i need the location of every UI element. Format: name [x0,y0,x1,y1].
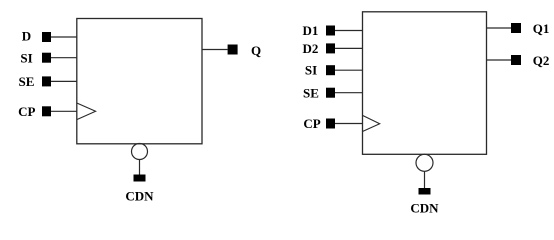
pin label D1 [303,23,319,38]
wire CDN to U1 [139,160,141,175]
svg-text:D2: D2 [303,41,319,56]
pin label D2 [303,41,319,56]
svg-text:D1: D1 [303,23,319,38]
pin terminal Q2 [511,55,521,65]
wire CDN to U2 [424,171,426,188]
pin label Q [251,43,261,58]
flip-flop body U2 (right block) [363,12,487,155]
clock triangle on CP input of U1 [77,103,96,120]
pin terminal Q1 [511,23,521,33]
pin terminal CDN (right) [419,188,431,195]
pin terminal SI (right) [326,65,335,75]
wire SE to U2 [335,92,363,94]
pin label D [22,28,31,43]
svg-text:SE: SE [303,86,319,101]
svg-text:SI: SI [305,63,317,78]
svg-text:Q1: Q1 [533,21,550,36]
svg-text:CP: CP [18,104,35,119]
pin label CDN (right) [410,201,439,216]
wire Q from U1 [202,49,228,51]
svg-text:Q2: Q2 [533,53,550,68]
pin terminal CP (right) [326,119,335,129]
pin label SE (right) [303,86,319,101]
inversion bubble on CDN of U2 [416,154,433,171]
pin label CDN (left) [125,189,154,204]
wire SI to U1 [51,57,77,59]
pin label Q2 [533,53,550,68]
pin label SI (right) [305,63,317,78]
wire D2 to U2 [335,47,363,49]
pin terminal SE [42,76,51,86]
pin terminal CDN (left) [134,175,146,182]
svg-text:SI: SI [20,50,32,65]
inversion bubble on CDN of U1 [132,144,148,160]
pin terminal SE (right) [326,88,335,98]
pin terminal D2 [326,43,335,53]
pin terminal D [42,32,51,42]
svg-text:CP: CP [303,116,320,131]
wire CP to U2 [335,123,363,125]
wire CP to U1 [51,110,77,112]
svg-text:SE: SE [19,74,35,89]
pin label CP (right) [303,116,320,131]
svg-text:CDN: CDN [125,189,154,204]
pin label SE [19,74,35,89]
wire Q1 from U2 [487,27,512,29]
wire Q2 from U2 [487,59,512,61]
flip-flop body U1 (left block) [77,19,202,144]
pin terminal CP [42,106,51,116]
pin terminal Q [228,45,238,55]
pin label SI [20,50,32,65]
svg-text:Q: Q [251,43,261,58]
wire D1 to U2 [335,30,363,32]
clock triangle on CP input of U2 [363,115,380,131]
pin terminal D1 [326,26,335,36]
svg-text:D: D [22,28,31,43]
wire SE to U1 [51,80,77,82]
wire SI to U2 [335,69,363,71]
wire D to U1 [51,36,77,38]
svg-text:CDN: CDN [410,201,439,216]
pin label Q1 [533,21,550,36]
pin terminal SI [42,53,51,63]
pin label CP [18,104,35,119]
